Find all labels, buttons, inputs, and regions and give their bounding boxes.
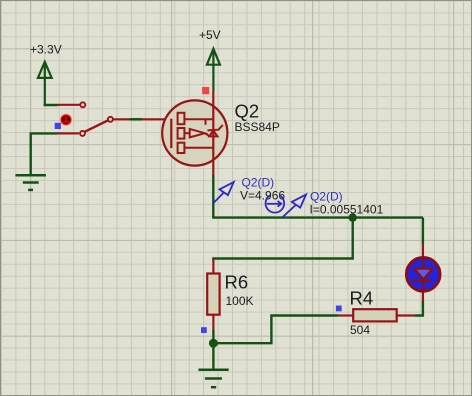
svg-text:Q2(D): Q2(D) [310,189,343,203]
source stub [205,119,207,125]
switch toggle actuator (red dot) [60,114,72,126]
transistor Q2 body circle [162,100,227,165]
source link [184,118,213,120]
svg-text:R6: R6 [225,271,249,292]
svg-text:V=4.966: V=4.966 [240,188,285,202]
svg-text:+3.3V: +3.3V [30,42,62,56]
wire junction to R4 left [213,316,338,344]
svg-text:I=0.00551401: I=0.00551401 [310,202,384,216]
drain link [184,147,213,149]
svg-text:R4: R4 [350,287,374,308]
svg-text:+5V: +5V [199,28,221,42]
resistor R4 body [353,309,397,321]
wire switch common to Q2 gate [114,118,143,120]
LED D1 cathode bar [412,280,432,282]
R6 bottom pin [212,315,214,331]
wire R6 bottom to ground junction [212,330,214,343]
body arrow (P-channel) [190,129,205,138]
voltage probe Q2(D) arrow [213,182,234,204]
logic-state marker blue square (R6) [201,327,207,333]
switch SW top throw terminal [80,102,85,107]
wire +3.3V to switch top throw [45,104,58,105]
wire Q2 drain down and right to node [213,176,423,218]
LED D1 anode line [422,259,424,269]
svg-text:Q2: Q2 [235,100,260,121]
Q2 internal symbol [171,107,223,159]
channel box 1 (source) [178,113,185,124]
svg-text:Q2(D): Q2(D) [242,175,275,189]
Q2 source pin (top) [212,91,214,107]
svg-text:BSS84P: BSS84P [235,120,280,134]
body diode triangle [209,130,217,136]
LED D1 triangle [414,269,432,280]
Q2 gate pin [142,118,171,120]
junction node (drain net) [349,213,357,221]
internal vertical rail [212,107,214,159]
LED D1 anode pin [422,244,424,258]
resistor R6 body [207,274,219,315]
switch SW bottom throw terminal [80,131,85,136]
ground (bottom) [199,370,229,387]
logic-state marker blue square (R4) [336,306,342,312]
switch SW bottom throw pin [58,132,79,134]
switch SW lever [83,120,110,133]
current probe circle [266,195,285,212]
LED D1 cathode line [422,279,424,290]
arrow to body diode [205,133,210,136]
LED D1 body [406,257,440,291]
switch SW top throw pin [58,104,80,106]
logic-state marker blue square (switch) [55,123,61,129]
junction node (R6/R4/ground) [209,339,218,348]
power +3.3V symbol [38,62,52,105]
body diode cathode bar [207,125,222,130]
wire node to R6 top [213,218,352,261]
wire R4 to LED cathode [414,300,423,315]
ground (left) [15,175,46,190]
wire junction to ground [212,343,214,370]
svg-text:504: 504 [350,323,370,337]
wire switch bottom throw to ground [31,133,58,175]
R4 left pin [339,314,354,316]
channel box 2 (body) [178,128,185,139]
channel box 3 (drain) [178,143,185,153]
svg-text:100K: 100K [226,294,254,308]
LED D1 cathode pin [422,291,424,301]
Q2 drain pin (bottom) [212,159,214,176]
power +5V symbol [207,49,220,91]
R6 top pin [212,259,214,274]
switch SW common terminal [108,117,113,122]
wire node to LED anode [422,218,424,244]
current probe Q2(D) arrow [282,195,306,218]
gate bar [170,119,172,148]
R4 right pin [397,314,415,316]
body link [184,132,189,134]
logic-state marker red square (Q2 source) [202,87,209,94]
